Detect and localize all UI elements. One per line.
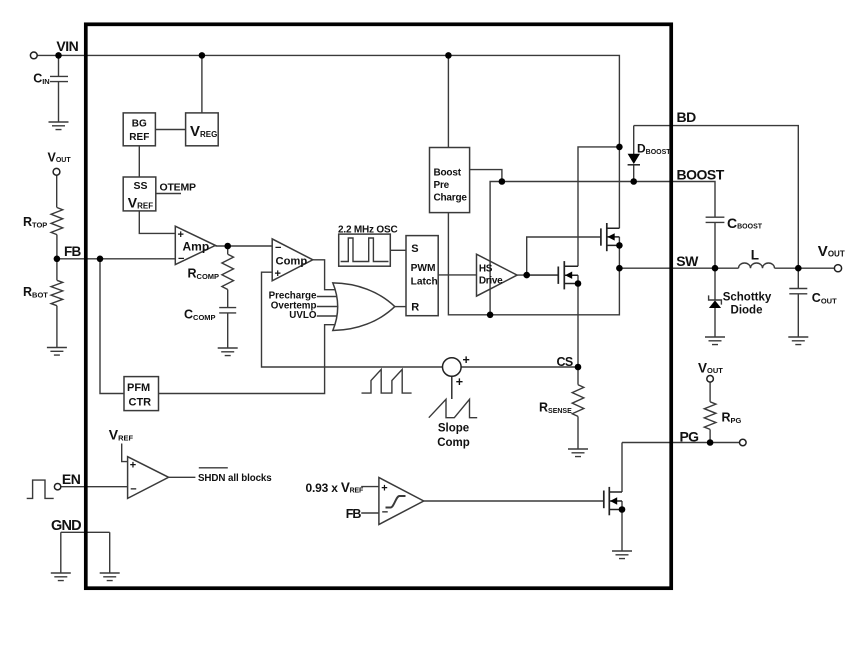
svg-text:S: S: [411, 243, 418, 255]
svg-text:−: −: [178, 253, 184, 265]
svg-text:BG: BG: [132, 119, 147, 130]
svg-text:Boost: Boost: [434, 168, 462, 179]
svg-text:0.93 x VREF: 0.93 x VREF: [306, 480, 364, 495]
svg-text:SS: SS: [134, 180, 148, 192]
svg-text:−: −: [130, 484, 136, 496]
svg-text:VOUT: VOUT: [698, 360, 723, 375]
svg-text:R: R: [411, 301, 419, 313]
svg-text:CS: CS: [557, 355, 573, 369]
svg-text:CCOMP: CCOMP: [184, 308, 216, 323]
svg-text:RCOMP: RCOMP: [188, 267, 220, 282]
svg-text:2.2 MHz OSC: 2.2 MHz OSC: [338, 225, 397, 236]
svg-text:RTOP: RTOP: [23, 215, 47, 230]
svg-text:FB: FB: [346, 507, 362, 521]
svg-text:+: +: [463, 353, 470, 367]
svg-text:OTEMP: OTEMP: [160, 182, 197, 194]
svg-text:BD: BD: [677, 109, 697, 125]
svg-text:CIN: CIN: [33, 72, 50, 87]
svg-text:+: +: [178, 229, 184, 241]
svg-text:RBOT: RBOT: [23, 285, 48, 300]
svg-text:EN: EN: [62, 471, 81, 487]
svg-text:VOUT: VOUT: [48, 151, 72, 165]
svg-text:PFM: PFM: [127, 382, 150, 394]
svg-text:+: +: [130, 459, 136, 471]
svg-text:L: L: [751, 248, 759, 263]
svg-text:CBOOST: CBOOST: [727, 215, 763, 231]
svg-text:GND: GND: [51, 518, 81, 534]
svg-text:Comp: Comp: [276, 255, 308, 267]
svg-text:Drive: Drive: [479, 275, 503, 286]
svg-text:+: +: [381, 482, 387, 494]
svg-text:VREF: VREF: [109, 427, 134, 443]
svg-text:−: −: [275, 242, 281, 254]
svg-text:Amp: Amp: [183, 240, 210, 254]
svg-text:FB: FB: [64, 244, 81, 259]
svg-text:HS: HS: [479, 263, 493, 274]
svg-text:RSENSE: RSENSE: [539, 401, 572, 416]
svg-text:COUT: COUT: [812, 291, 837, 306]
svg-text:Pre: Pre: [434, 180, 450, 191]
svg-text:Diode: Diode: [731, 305, 763, 317]
svg-text:Schottky: Schottky: [723, 292, 772, 304]
svg-text:SHDN all blocks: SHDN all blocks: [198, 473, 272, 484]
svg-text:+: +: [456, 375, 463, 389]
svg-text:BOOST: BOOST: [677, 166, 725, 182]
svg-text:DBOOST: DBOOST: [637, 142, 671, 157]
svg-text:Comp: Comp: [437, 437, 470, 449]
svg-text:REF: REF: [129, 132, 149, 143]
svg-text:PWM: PWM: [411, 263, 436, 274]
svg-text:UVLO: UVLO: [289, 310, 317, 321]
svg-text:Latch: Latch: [411, 277, 438, 288]
svg-text:+: +: [275, 268, 281, 280]
svg-text:RPG: RPG: [722, 411, 742, 426]
svg-text:VIN: VIN: [56, 38, 78, 54]
svg-text:Charge: Charge: [434, 193, 468, 204]
svg-text:CTR: CTR: [129, 397, 152, 409]
svg-text:Slope: Slope: [438, 423, 469, 435]
svg-text:−: −: [382, 506, 388, 518]
svg-text:PG: PG: [680, 428, 700, 444]
svg-text:SW: SW: [676, 253, 699, 269]
svg-text:VOUT: VOUT: [818, 243, 845, 260]
